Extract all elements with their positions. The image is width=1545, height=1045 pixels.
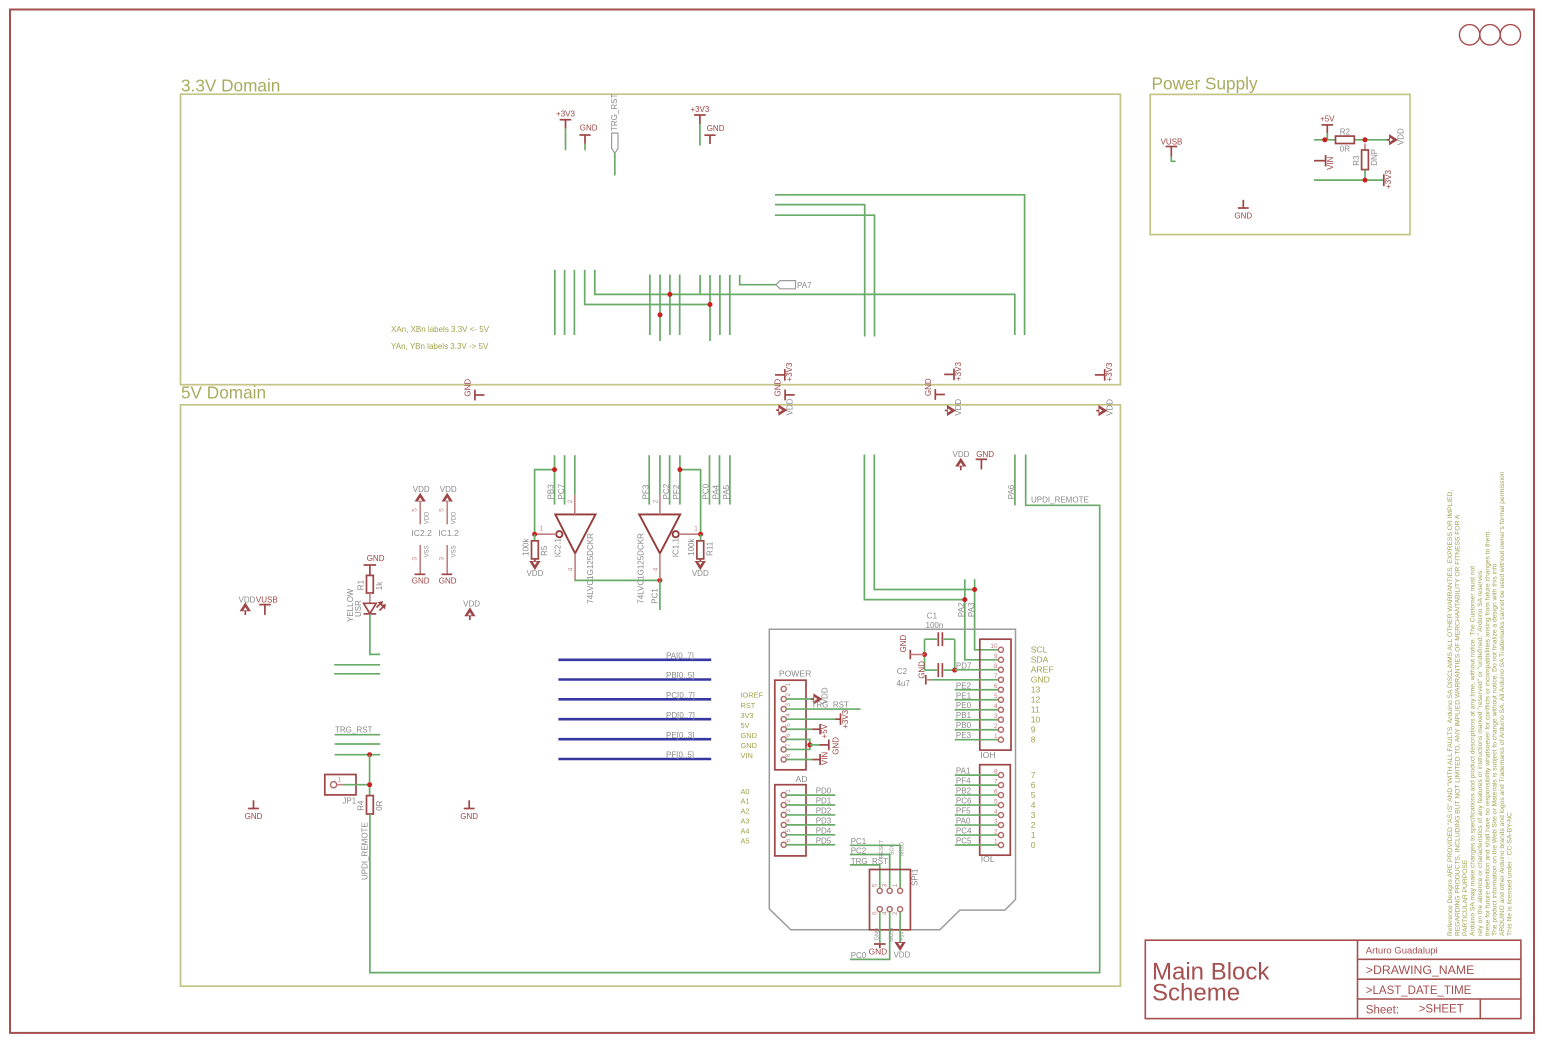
svg-text:VIN: VIN bbox=[820, 752, 829, 766]
svg-text:MISO: MISO bbox=[899, 841, 905, 856]
svg-text:12: 12 bbox=[1031, 695, 1041, 705]
svg-text:VIN: VIN bbox=[1326, 156, 1335, 170]
svg-text:RESET: RESET bbox=[879, 839, 885, 858]
svg-text:GND: GND bbox=[464, 379, 473, 397]
svg-text:+3V3: +3V3 bbox=[841, 709, 850, 728]
svg-text:2: 2 bbox=[785, 799, 792, 803]
svg-text:100n: 100n bbox=[926, 621, 944, 630]
svg-text:GND: GND bbox=[774, 379, 783, 397]
svg-text:VDD: VDD bbox=[954, 399, 963, 416]
svg-text:PA6: PA6 bbox=[1007, 484, 1016, 499]
svg-text:2: 2 bbox=[652, 499, 659, 503]
svg-text:TRG_RST: TRG_RST bbox=[610, 94, 619, 131]
svg-text:74LVC1G125DCKR: 74LVC1G125DCKR bbox=[637, 533, 646, 604]
svg-text:6: 6 bbox=[872, 911, 879, 915]
svg-text:+3V3: +3V3 bbox=[1384, 169, 1393, 188]
svg-text:5: 5 bbox=[785, 828, 792, 832]
svg-text:PD3: PD3 bbox=[816, 816, 832, 825]
svg-text:VDD: VDD bbox=[893, 950, 910, 959]
svg-text:PC[0..7]: PC[0..7] bbox=[666, 691, 695, 700]
svg-text:1: 1 bbox=[540, 526, 544, 533]
svg-text:VSS: VSS bbox=[424, 545, 430, 557]
svg-text:1: 1 bbox=[892, 883, 899, 887]
svg-text:+5V: +5V bbox=[820, 723, 829, 738]
svg-text:PB2: PB2 bbox=[956, 787, 972, 796]
svg-text:GND: GND bbox=[367, 554, 385, 563]
svg-text:PD2: PD2 bbox=[816, 806, 832, 815]
svg-text:5: 5 bbox=[412, 508, 419, 512]
svg-text:PF3: PF3 bbox=[641, 484, 650, 499]
svg-text:3: 3 bbox=[1031, 810, 1036, 820]
svg-text:A3: A3 bbox=[741, 817, 750, 826]
svg-text:GND: GND bbox=[976, 450, 994, 459]
svg-text:IOH: IOH bbox=[980, 750, 995, 760]
svg-text:2: 2 bbox=[1031, 820, 1036, 830]
svg-text:GND: GND bbox=[741, 731, 757, 740]
svg-text:4u7: 4u7 bbox=[897, 679, 911, 688]
svg-text:+5V: +5V bbox=[1320, 114, 1335, 123]
svg-text:PB[0..5]: PB[0..5] bbox=[666, 671, 694, 680]
svg-text:PC4: PC4 bbox=[956, 827, 972, 836]
svg-text:0: 0 bbox=[1031, 840, 1036, 850]
svg-text:PA2: PA2 bbox=[957, 602, 966, 617]
svg-text:>DRAWING_NAME: >DRAWING_NAME bbox=[1366, 963, 1475, 977]
svg-text:VDD: VDD bbox=[440, 485, 457, 494]
svg-text:R5: R5 bbox=[540, 545, 549, 556]
svg-text:VDD: VDD bbox=[413, 485, 430, 494]
svg-text:PE3: PE3 bbox=[956, 731, 972, 740]
svg-text:PC0: PC0 bbox=[702, 483, 711, 499]
svg-text:1: 1 bbox=[1031, 830, 1036, 840]
svg-text:A4: A4 bbox=[741, 827, 750, 836]
svg-text:4: 4 bbox=[568, 567, 575, 571]
svg-text:PA0: PA0 bbox=[956, 817, 971, 826]
svg-text:PA5: PA5 bbox=[722, 484, 731, 499]
svg-text:PA7: PA7 bbox=[797, 281, 812, 290]
svg-text:UPDI_REMOTE: UPDI_REMOTE bbox=[361, 822, 370, 880]
svg-text:GND: GND bbox=[580, 124, 598, 133]
svg-text:VDD: VDD bbox=[463, 600, 480, 609]
svg-text:+3V3: +3V3 bbox=[556, 110, 575, 119]
svg-text:VIN: VIN bbox=[741, 751, 753, 760]
svg-text:XAn, XBn labels 3.3V <- 5V: XAn, XBn labels 3.3V <- 5V bbox=[391, 325, 490, 334]
svg-text:USR: USR bbox=[354, 600, 363, 617]
svg-text:VDD: VDD bbox=[1106, 399, 1115, 416]
svg-text:C2: C2 bbox=[897, 667, 908, 676]
svg-text:PB1: PB1 bbox=[956, 711, 972, 720]
svg-text:GND: GND bbox=[741, 741, 757, 750]
svg-text:6: 6 bbox=[785, 733, 792, 737]
svg-text:Sheet:: Sheet: bbox=[1366, 1004, 1399, 1016]
svg-text:This file is licensed under :: This file is licensed under : CC-SA-BY-N… bbox=[1507, 812, 1514, 936]
svg-text:PC6: PC6 bbox=[956, 797, 972, 806]
svg-text:PA4: PA4 bbox=[712, 484, 721, 499]
svg-text:SCK: SCK bbox=[889, 844, 895, 856]
svg-text:A1: A1 bbox=[741, 797, 750, 806]
svg-text:PD[0..7]: PD[0..7] bbox=[666, 711, 695, 720]
svg-text:PF2: PF2 bbox=[672, 484, 681, 499]
svg-text:5: 5 bbox=[785, 723, 792, 727]
svg-text:100k: 100k bbox=[687, 538, 696, 556]
svg-text:+3V3: +3V3 bbox=[690, 105, 709, 114]
svg-text:AD: AD bbox=[796, 774, 808, 784]
svg-text:PF4: PF4 bbox=[956, 777, 971, 786]
svg-text:VDD: VDD bbox=[451, 511, 457, 524]
svg-text:IC1.1: IC1.1 bbox=[672, 538, 681, 558]
svg-text:5: 5 bbox=[1031, 790, 1036, 800]
svg-text:6: 6 bbox=[785, 838, 792, 842]
svg-text:UPDI_REMOTE: UPDI_REMOTE bbox=[1031, 496, 1089, 505]
svg-text:IC1.2: IC1.2 bbox=[438, 528, 459, 538]
svg-text:3V3: 3V3 bbox=[741, 711, 754, 720]
svg-text:100k: 100k bbox=[522, 538, 531, 556]
svg-text:PF[0..5]: PF[0..5] bbox=[666, 751, 694, 760]
svg-text:PD5: PD5 bbox=[816, 836, 832, 845]
svg-text:rely on the absence or charact: rely on the absence or characteristics o… bbox=[1477, 570, 1484, 936]
svg-text:GND: GND bbox=[460, 812, 478, 821]
svg-text:13: 13 bbox=[1031, 685, 1041, 695]
svg-text:PD7: PD7 bbox=[956, 661, 972, 670]
svg-text:TRG_RST: TRG_RST bbox=[812, 701, 849, 710]
svg-text:4: 4 bbox=[785, 713, 792, 717]
svg-text:3: 3 bbox=[785, 703, 792, 707]
svg-text:0R: 0R bbox=[375, 800, 384, 810]
svg-text:VSS: VSS bbox=[451, 545, 457, 557]
svg-text:PA[0..7]: PA[0..7] bbox=[666, 651, 694, 660]
svg-text:GND: GND bbox=[899, 635, 908, 653]
svg-text:VDD: VDD bbox=[424, 511, 430, 524]
svg-text:GND: GND bbox=[1031, 675, 1050, 685]
svg-text:GND: GND bbox=[707, 124, 725, 133]
svg-text:>LAST_DATE_TIME: >LAST_DATE_TIME bbox=[1366, 985, 1472, 997]
svg-text:GND: GND bbox=[439, 576, 457, 585]
svg-text:1: 1 bbox=[338, 777, 342, 784]
svg-text:2: 2 bbox=[892, 911, 899, 915]
svg-text:>SHEET: >SHEET bbox=[1419, 1004, 1464, 1016]
svg-text:8: 8 bbox=[1031, 735, 1036, 745]
svg-text:AREF: AREF bbox=[1031, 665, 1054, 675]
svg-text:PE0: PE0 bbox=[956, 701, 972, 710]
svg-text:4: 4 bbox=[1031, 800, 1036, 810]
svg-text:GND: GND bbox=[245, 812, 263, 821]
svg-text:YAn, YBn labels 3.3V -> 5V: YAn, YBn labels 3.3V -> 5V bbox=[391, 342, 489, 351]
svg-text:IOREF: IOREF bbox=[741, 691, 764, 700]
svg-text:R3: R3 bbox=[1352, 155, 1361, 166]
svg-text:PC1: PC1 bbox=[650, 588, 659, 604]
svg-text:R11: R11 bbox=[706, 541, 715, 556]
svg-text:5V: 5V bbox=[741, 721, 750, 730]
svg-text:PC7: PC7 bbox=[557, 483, 566, 499]
svg-text:IC2.1: IC2.1 bbox=[553, 538, 562, 558]
svg-text:PARTICULAR PURPOSE: PARTICULAR PURPOSE bbox=[1462, 859, 1469, 936]
svg-text:R1: R1 bbox=[357, 579, 366, 590]
svg-text:GND: GND bbox=[869, 946, 888, 956]
svg-text:1: 1 bbox=[785, 683, 792, 687]
svg-text:C1: C1 bbox=[927, 612, 938, 621]
svg-text:9: 9 bbox=[994, 653, 998, 660]
svg-text:ARDUINO and other Arduino bran: ARDUINO and other Arduino brands and log… bbox=[1499, 471, 1506, 936]
svg-text:0R: 0R bbox=[1340, 144, 1350, 153]
svg-text:PE[0..3]: PE[0..3] bbox=[666, 731, 694, 740]
svg-text:MOSI: MOSI bbox=[889, 927, 895, 942]
svg-text:VDD: VDD bbox=[692, 569, 709, 578]
svg-text:VDD: VDD bbox=[786, 398, 795, 415]
svg-text:PA3: PA3 bbox=[967, 602, 976, 617]
svg-text:PA1: PA1 bbox=[956, 767, 971, 776]
svg-text:VDD: VDD bbox=[526, 569, 543, 578]
svg-text:Arduino SA may make changes to: Arduino SA may make changes to specifica… bbox=[1469, 566, 1476, 936]
svg-text:R4: R4 bbox=[357, 800, 366, 811]
svg-text:PC0: PC0 bbox=[851, 951, 867, 960]
svg-text:4: 4 bbox=[882, 911, 889, 915]
svg-text:GND: GND bbox=[1234, 211, 1252, 220]
svg-text:SCL: SCL bbox=[1031, 645, 1048, 655]
svg-text:VDD: VDD bbox=[239, 596, 256, 605]
svg-text:SPI1: SPI1 bbox=[911, 868, 920, 886]
svg-text:+3V3: +3V3 bbox=[954, 362, 963, 381]
svg-text:PC5: PC5 bbox=[956, 837, 972, 846]
svg-text:VUSB: VUSB bbox=[256, 596, 278, 605]
svg-text:Scheme: Scheme bbox=[1152, 979, 1240, 1006]
svg-text:IOL: IOL bbox=[981, 854, 995, 864]
svg-text:POWER: POWER bbox=[779, 669, 811, 679]
svg-text:R2: R2 bbox=[1340, 128, 1351, 137]
svg-text:IC2.2: IC2.2 bbox=[411, 528, 432, 538]
svg-text:2: 2 bbox=[567, 499, 574, 503]
svg-text:VDD: VDD bbox=[953, 450, 970, 459]
svg-text:6: 6 bbox=[1031, 780, 1036, 790]
svg-text:4: 4 bbox=[785, 818, 792, 822]
svg-text:9: 9 bbox=[1031, 725, 1036, 735]
svg-text:10: 10 bbox=[990, 643, 998, 650]
svg-text:PD4: PD4 bbox=[816, 826, 832, 835]
svg-text:RST: RST bbox=[741, 701, 756, 710]
svg-text:Arturo Guadalupi: Arturo Guadalupi bbox=[1366, 946, 1438, 957]
svg-text:A0: A0 bbox=[741, 787, 750, 796]
svg-text:1: 1 bbox=[785, 789, 792, 793]
svg-text:SDA: SDA bbox=[1031, 655, 1049, 665]
svg-text:+5V: +5V bbox=[899, 931, 905, 941]
svg-text:TRG_RST: TRG_RST bbox=[335, 726, 372, 735]
svg-text:5V Domain: 5V Domain bbox=[181, 382, 266, 402]
svg-text:7: 7 bbox=[785, 743, 792, 747]
svg-text:VDD: VDD bbox=[1396, 128, 1405, 145]
svg-text:1: 1 bbox=[694, 526, 698, 533]
svg-text:8: 8 bbox=[785, 753, 792, 757]
svg-text:10: 10 bbox=[1031, 715, 1041, 725]
svg-text:2: 2 bbox=[785, 693, 792, 697]
svg-text:these for future definition an: these for future definition and shall ha… bbox=[1484, 530, 1491, 936]
svg-text:REGARDING PRODUCTS, INCLUDING: REGARDING PRODUCTS, INCLUDING BUT NOT LI… bbox=[1454, 514, 1461, 936]
svg-text:+3V3: +3V3 bbox=[1105, 362, 1114, 381]
svg-text:11: 11 bbox=[1031, 705, 1040, 715]
svg-text:GND: GND bbox=[412, 576, 430, 585]
svg-text:5: 5 bbox=[872, 883, 879, 887]
svg-text:PD0: PD0 bbox=[816, 787, 832, 796]
svg-text:PB0: PB0 bbox=[956, 721, 972, 730]
svg-text:GND: GND bbox=[831, 737, 840, 755]
svg-text:VUSB: VUSB bbox=[1161, 137, 1183, 146]
svg-text:3.3V Domain: 3.3V Domain bbox=[181, 75, 280, 95]
svg-text:PC2: PC2 bbox=[662, 483, 671, 499]
svg-text:Power Supply: Power Supply bbox=[1152, 73, 1258, 93]
svg-text:3: 3 bbox=[412, 557, 419, 561]
svg-text:7: 7 bbox=[1031, 770, 1036, 780]
svg-text:PE1: PE1 bbox=[956, 691, 972, 700]
svg-text:+3V3: +3V3 bbox=[785, 362, 794, 381]
svg-text:3: 3 bbox=[785, 809, 792, 813]
svg-text:Reference Designs ARE PROVIDED: Reference Designs ARE PROVIDED "AS IS" A… bbox=[1447, 490, 1454, 936]
svg-text:PD1: PD1 bbox=[816, 797, 832, 806]
svg-text:DNP: DNP bbox=[1370, 149, 1379, 166]
svg-text:3: 3 bbox=[882, 883, 889, 887]
svg-text:The product information on the: The product information on the Web Site … bbox=[1492, 563, 1499, 936]
svg-text:3: 3 bbox=[439, 557, 446, 561]
svg-text:5: 5 bbox=[439, 508, 446, 512]
svg-text:4: 4 bbox=[652, 567, 659, 571]
svg-text:1k: 1k bbox=[375, 581, 384, 590]
svg-text:A2: A2 bbox=[741, 807, 750, 816]
svg-text:GND: GND bbox=[918, 661, 927, 679]
svg-text:PF5: PF5 bbox=[956, 807, 971, 816]
svg-text:PE2: PE2 bbox=[956, 681, 972, 690]
svg-text:GND: GND bbox=[924, 378, 933, 396]
svg-text:A5: A5 bbox=[741, 836, 750, 845]
svg-text:GND: GND bbox=[875, 928, 881, 940]
svg-text:JP1: JP1 bbox=[342, 796, 356, 805]
svg-text:74LVC1G125DCKR: 74LVC1G125DCKR bbox=[586, 533, 595, 604]
svg-text:PB3: PB3 bbox=[547, 484, 556, 500]
